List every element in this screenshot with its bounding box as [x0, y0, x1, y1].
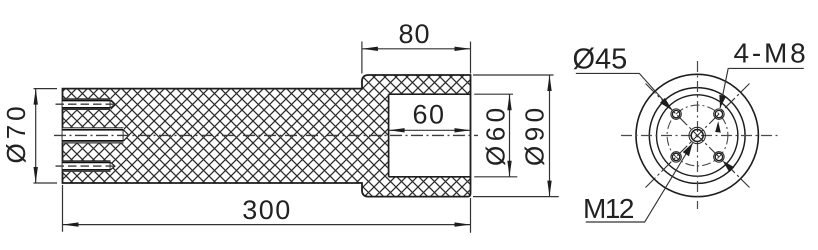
vertical centerline [697, 61, 699, 209]
tapped hole M8 bottom (section) [56, 161, 119, 172]
M8 hole SE [714, 152, 724, 162]
svg-text:M12: M12 [583, 193, 634, 224]
circle D60 [657, 95, 738, 176]
label 4-M8 with leader [719, 38, 808, 109]
M8 hole SW [671, 152, 681, 162]
diagonal centerline NE-SW [646, 84, 750, 188]
tapped hole M8 top (section) [56, 99, 119, 110]
horizontal centerline [621, 135, 778, 137]
small arrow below NE hole [715, 121, 721, 132]
part outline [63, 75, 471, 197]
diagonal centerline NW-SE [646, 84, 750, 188]
label M12 with leader [583, 143, 693, 224]
svg-text:4-M8: 4-M8 [734, 38, 809, 69]
svg-text:Ø70: Ø70 [1, 102, 31, 163]
M12 center hole [689, 127, 705, 143]
dimension D70 [1, 89, 57, 183]
svg-text:Ø60: Ø60 [481, 103, 511, 166]
label D45 with leader [573, 44, 673, 111]
M8 hole NW [671, 109, 681, 119]
dimension 80 [362, 19, 471, 74]
dimension 60 (bore depth) [389, 100, 471, 133]
svg-text:300: 300 [242, 195, 292, 225]
circle D70 [649, 88, 745, 184]
bore outline [389, 94, 471, 177]
dimension D60 [474, 94, 517, 177]
tapped hole M12 middle (section) [63, 128, 129, 144]
D45 second arrow SE [723, 161, 735, 173]
svg-text:Ø90: Ø90 [520, 103, 550, 166]
svg-text:80: 80 [398, 19, 430, 49]
part silhouette hatched body [63, 75, 471, 197]
svg-text:60: 60 [412, 100, 445, 130]
M8 hole NE [714, 109, 724, 119]
dimension D90 [473, 75, 559, 197]
outer circle D90 [636, 74, 758, 196]
bolt circle D45 [667, 105, 728, 166]
dimension 300 [63, 185, 471, 233]
bore cavity (white) [389, 94, 471, 177]
main centerline of side view [54, 134, 478, 136]
svg-text:Ø45: Ø45 [573, 44, 628, 76]
